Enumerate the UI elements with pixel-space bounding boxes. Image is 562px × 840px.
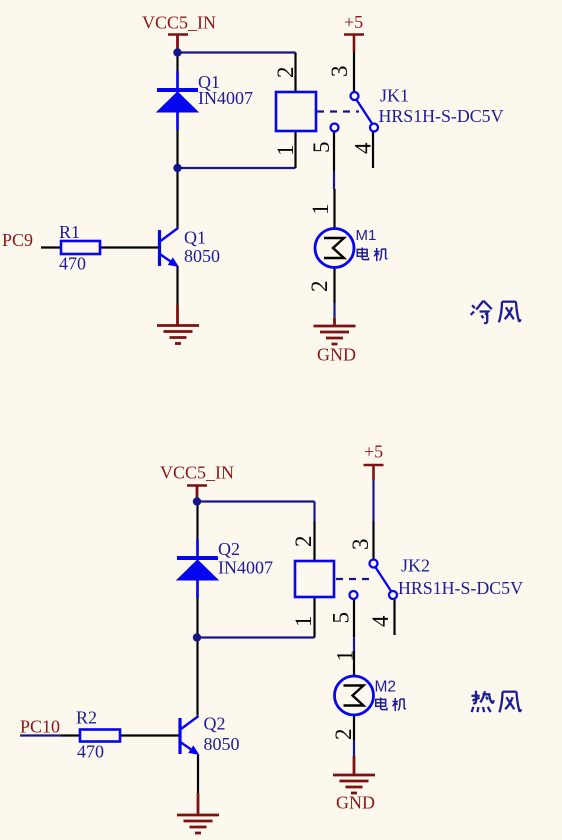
svg-text:5: 5 [309,142,334,154]
svg-text:R1: R1 [59,222,80,242]
svg-text:470: 470 [77,742,104,762]
svg-text:+5: +5 [364,442,383,462]
svg-text:+5: +5 [344,12,363,32]
svg-text:HRS1H-S-DC5V: HRS1H-S-DC5V [398,578,523,598]
svg-text:IN4007: IN4007 [198,88,253,108]
svg-text:4: 4 [368,615,393,627]
svg-text:M1: M1 [356,227,377,244]
svg-text:1: 1 [291,616,316,628]
svg-text:2: 2 [331,729,356,741]
svg-text:1: 1 [308,204,333,216]
svg-text:Q2: Q2 [204,714,226,734]
svg-text:IN4007: IN4007 [218,558,273,578]
svg-text:2: 2 [273,67,298,79]
svg-text:GND: GND [317,345,356,365]
svg-text:3: 3 [348,539,373,551]
svg-text:3: 3 [327,66,352,78]
svg-text:JK1: JK1 [380,86,409,106]
svg-text:R2: R2 [76,708,97,728]
svg-text:5: 5 [329,612,354,624]
svg-text:Q2: Q2 [218,539,240,559]
svg-text:1: 1 [333,650,358,662]
svg-text:M2: M2 [375,679,397,696]
svg-text:470: 470 [59,254,86,274]
svg-text:2: 2 [307,281,332,293]
svg-text:4: 4 [351,142,376,154]
svg-text:HRS1H-S-DC5V: HRS1H-S-DC5V [379,106,504,126]
svg-text:8050: 8050 [204,734,240,754]
svg-text:VCC5_IN: VCC5_IN [160,463,234,483]
svg-text:Q1: Q1 [184,228,206,248]
svg-text:VCC5_IN: VCC5_IN [142,13,216,33]
svg-text:JK2: JK2 [401,556,430,576]
svg-text:2: 2 [291,536,316,548]
svg-text:8050: 8050 [184,246,220,266]
svg-text:PC10: PC10 [20,717,60,737]
svg-text:1: 1 [273,145,298,157]
svg-text:GND: GND [336,793,375,813]
svg-text:PC9: PC9 [2,230,33,250]
